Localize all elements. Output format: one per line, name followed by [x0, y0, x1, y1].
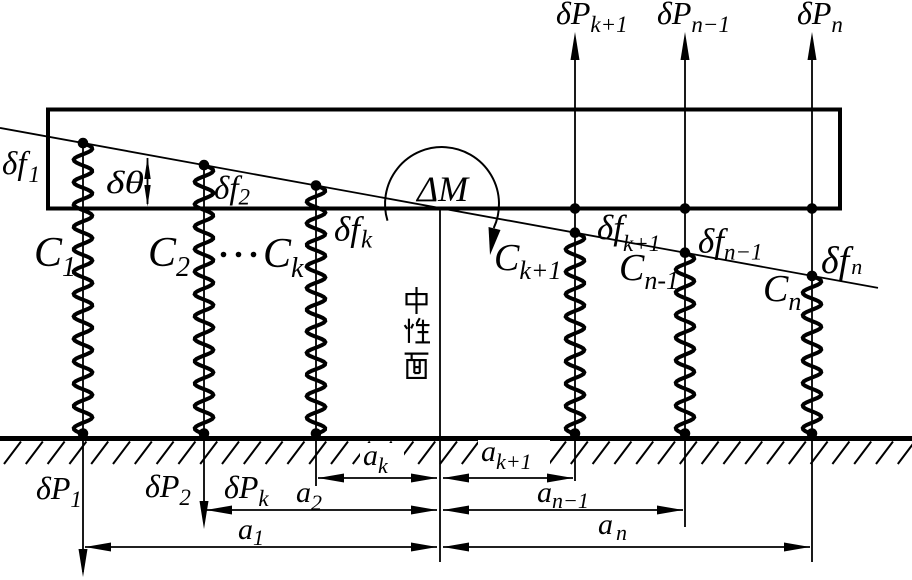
text zhong (中) — [407, 287, 427, 314]
angle indicator arrow d-theta — [144, 158, 150, 207]
spring Cn coil — [803, 276, 821, 434]
svg-text:δθ: δθ — [106, 164, 144, 200]
wire centerline of spring C1 — [82, 143, 84, 572]
ground line — [0, 436, 912, 441]
wire centerline of spring Cn — [811, 209, 813, 563]
spring Cn-1 coil — [676, 253, 694, 434]
force arrow dP2 — [200, 501, 209, 529]
spring Ck+1 coil — [566, 233, 585, 434]
label patch a_k+1 — [478, 440, 550, 467]
svg-text:ΔM: ΔM — [415, 169, 470, 209]
spring C2 coil — [195, 165, 214, 434]
dimension line a_n-1 — [443, 506, 683, 515]
force arrow dPk+1 — [571, 32, 580, 209]
ellipsis dots — [221, 252, 257, 258]
beam (rigid plate) — [48, 110, 840, 209]
deflected neutral-axis line — [0, 128, 878, 288]
neutral plane vertical line — [439, 209, 441, 563]
force arrow dP1 — [79, 549, 88, 577]
dimension line a_n — [443, 543, 810, 552]
wire centerline of spring Ck — [315, 186, 317, 487]
moment arrow dM arc — [385, 147, 500, 255]
label patch a_k — [360, 443, 404, 468]
spring Ck coil — [307, 186, 326, 435]
node dots on beam bottom edge — [570, 203, 818, 214]
dimension line a_k — [318, 474, 437, 483]
wire centerline of spring Ck+1 — [574, 209, 576, 482]
text xing (性) — [405, 318, 430, 343]
ground hatching — [4, 442, 912, 465]
dimension line a_1 — [85, 543, 437, 552]
force arrow dPn-1 — [681, 32, 690, 209]
force arrow dPn — [808, 32, 817, 209]
dimension line a_k+1 — [443, 474, 573, 483]
wire centerline of spring C2 — [203, 165, 205, 522]
spring C1 coil — [74, 143, 93, 434]
wire centerline of spring Cn-1 — [684, 209, 686, 528]
node dots on slant line — [78, 138, 818, 281]
dimension line a_2 — [206, 506, 437, 515]
node dots on ground — [78, 428, 818, 439]
text mian (面) — [405, 354, 429, 378]
